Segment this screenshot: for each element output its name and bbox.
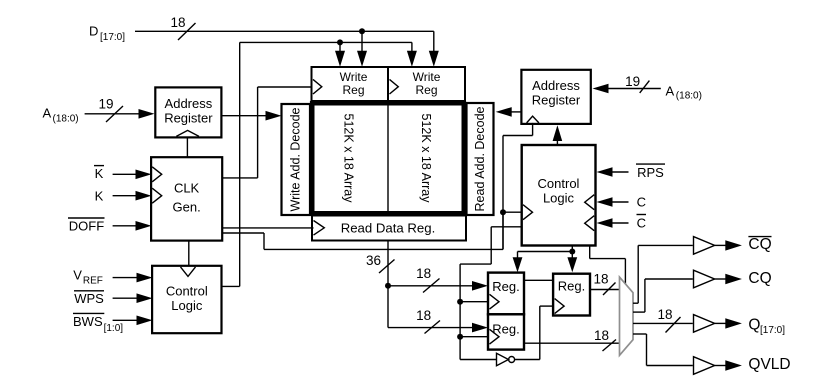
node K label [95,189,104,204]
svg-text:RPS: RPS [637,165,664,180]
svg-text:Q: Q [748,317,760,334]
wire K input [113,191,152,201]
svg-text:Reg.: Reg. [492,279,519,294]
node A(18:0) left label [43,106,79,125]
svg-text:18: 18 [593,272,608,287]
node D bus 18 label [170,15,185,30]
wire BWS overline [73,312,104,314]
decoder U4 Write Add. Decode [282,104,311,215]
svg-text:Reg.: Reg. [558,278,585,293]
wire mux to CQbar buffer [633,245,693,303]
buffer U17 CQbar [694,237,715,255]
svg-text:Address: Address [165,96,213,111]
buffer U20 QVLD [694,357,715,375]
wire A left arrowhead [139,109,155,119]
svg-text:Read Data Reg.: Read Data Reg. [341,220,436,235]
node 18 label lower mux input [594,328,609,343]
wire control logic to address register [553,125,563,145]
svg-text:19: 19 [98,97,113,112]
svg-text:Write Add. Decode: Write Add. Decode [289,107,303,211]
register U14 output Reg (right) [553,274,590,316]
node D junction dot [359,28,365,34]
wire 18 slash lower [425,321,441,334]
svg-text:CLK: CLK [174,181,200,196]
wire mux select from control logic [590,246,626,285]
wire address register clock net [503,123,533,249]
svg-text:A: A [666,84,675,99]
svg-text:Write: Write [413,70,441,84]
svg-text:18: 18 [657,307,672,322]
node 18 label right reg out [593,272,608,287]
wire output clock net from control logic [460,227,522,360]
wire Cbar overline [637,214,647,216]
svg-text:REF: REF [83,276,103,287]
memory U5 512Kx18 array block [312,103,464,213]
wire address register to write add decode [221,115,269,117]
wire 18 slash Q output [666,317,681,333]
wire clk gen to control logic clock [188,241,190,266]
svg-text:CQ: CQ [748,236,771,253]
node DOFF label [69,219,104,234]
svg-text:Register: Register [532,92,581,107]
wire Q output arrow [715,318,742,328]
node BWS[1:0] label [73,314,123,334]
wire DOFF overline [68,217,105,219]
svg-text:[17:0]: [17:0] [760,325,785,336]
register U9 Read Data Reg [312,216,466,241]
node CQ label [748,270,771,287]
wire RPS overline [636,163,665,165]
node select junction dot [569,249,575,255]
oscillator U2 CLK Gen [151,157,222,240]
svg-text:K: K [95,189,104,204]
svg-text:(18:0): (18:0) [53,114,79,125]
svg-text:512K x 18 Array: 512K x 18 Array [342,114,356,204]
wire 18 slash right reg out [603,283,616,296]
node C label [637,195,646,210]
node D[17:0] [89,24,125,44]
svg-text:Gen.: Gen. [173,200,201,215]
wire BWS arrowheads into write regs [335,51,417,67]
svg-text:CQ: CQ [748,270,771,287]
svg-text:512K x 18 Array: 512K x 18 Array [419,114,433,204]
wire RPS input [597,167,629,177]
register U1 Address Register (left) [155,87,221,137]
node VREF label [73,268,103,287]
wire D arrowheads into write regs [357,51,439,67]
wire Kbar input [113,170,152,180]
wire CQbar overline [748,236,771,238]
wire lower reg to mux [524,342,620,344]
wire address register clock to clk gen [186,137,188,157]
svg-text:BWS: BWS [73,314,103,329]
register U6 Write Reg (left) [312,67,389,101]
svg-text:Logic: Logic [171,298,203,313]
svg-text:Control: Control [166,284,208,299]
wire CQbar output arrow [715,240,742,250]
wire BWS input [113,316,153,326]
node Cbar label [637,215,646,230]
node Q[17:0] label [748,317,785,337]
register U10 Address Register (right) [521,70,590,124]
register U12 output Reg (upper left) [488,273,524,315]
wire WPS input [113,293,153,303]
wire A right input [593,84,661,94]
svg-text:[1:0]: [1:0] [104,323,124,334]
wire mux to QVLD buffer [633,334,693,366]
node A right 19 label [625,74,640,89]
node CQbar label [748,236,771,253]
wire clk gen to read data reg clock [222,227,313,229]
node QVLD label [748,356,790,373]
wire arrowhead into lower output reg [472,323,488,333]
wire clk gen to write reg clock [222,87,311,178]
svg-text:[17:0]: [17:0] [100,32,125,43]
svg-text:DOFF: DOFF [69,219,104,234]
wire D bus slash [178,23,196,40]
inverter U15 [497,353,515,365]
svg-text:Control: Control [538,176,580,191]
node WPS label [74,291,104,306]
buffer U18 CQ [694,270,715,288]
node 18 label upper reg input [416,266,431,281]
wire address register to read add decode [496,107,522,117]
svg-text:Reg: Reg [415,83,437,97]
node A(18:0) right label [666,84,702,102]
wire VREF input [113,273,153,283]
wire output clock to upper reg [460,301,488,303]
svg-text:Address: Address [532,78,580,93]
wire 36-bit read data bus [388,241,475,328]
svg-text:(18:0): (18:0) [676,91,702,102]
wire arrowhead into write add decode [266,111,282,121]
wire 36 slash [379,260,395,274]
wire WPS overline [74,290,104,292]
wire QVLD output arrow [715,360,742,370]
wire arrowhead into upper output reg [472,281,488,291]
wire CQ output arrow [715,274,742,284]
svg-text:Logic: Logic [543,190,575,205]
wire A right slash [640,81,650,93]
svg-text:QVLD: QVLD [748,356,790,373]
svg-text:Reg: Reg [342,83,364,97]
register U7 Write Reg (right) [388,67,465,101]
node 18 label Q output [657,307,672,322]
node A left 19 label [98,97,113,112]
wire right reg to mux [590,289,620,291]
node clock junction dot [500,209,506,215]
svg-text:18: 18 [416,308,431,323]
wire clk gen K clock distribution to right control logic [222,212,503,249]
svg-text:D: D [89,24,98,39]
decoder U8 Read Add. Decode [467,103,494,215]
svg-text:18: 18 [170,15,185,30]
mux U16 [620,277,634,355]
wire A input to address register [85,113,142,115]
wire D bus to write regs [135,31,434,53]
svg-text:Register: Register [164,110,213,125]
svg-text:C: C [637,215,646,230]
node 18 label lower reg input [416,308,431,323]
logic U3 Control Logic (left) [152,266,221,333]
wire output clock to lower reg [460,336,488,338]
svg-text:Read Add. Decode: Read Add. Decode [473,106,487,211]
node Kbar label [95,166,104,181]
node RPS label [637,165,664,180]
wire control logic to write regs [222,42,412,286]
node BWS junction dot [337,39,343,45]
wire upper reg to right reg [524,279,553,281]
wire select arrowheads into regs [513,257,578,272]
wire Kbar overline [94,165,104,167]
wire inverter output to right reg clock [515,306,554,359]
svg-text:WPS: WPS [74,291,104,306]
svg-text:V: V [73,268,82,283]
wire 18 slash upper [423,279,440,293]
svg-text:19: 19 [625,74,640,89]
register U13 output Reg (lower left) [488,314,524,349]
node 36 label [366,253,381,268]
logic U11 Control Logic (right) [522,145,596,246]
svg-text:36: 36 [366,253,381,268]
wire mux to Q buffer [633,322,693,324]
wire A left slash [106,106,123,122]
svg-text:Write: Write [340,70,368,84]
svg-text:18: 18 [594,328,609,343]
svg-text:18: 18 [416,266,431,281]
svg-text:K: K [95,166,104,181]
node clock dot upper [457,299,463,305]
node 36-bus junction dot [385,283,391,289]
wire DOFF input [113,221,152,231]
buffer U19 Q [694,315,715,333]
wire 18 slash lower mux input [603,340,617,352]
node clock dot lower [457,334,463,340]
wire mux to CQ buffer [633,279,693,312]
svg-text:A: A [43,106,52,121]
wire reg select stubs from control logic bottom [518,246,573,259]
wire C input [597,197,629,207]
svg-text:C: C [637,195,646,210]
wire Cbar input [597,218,629,228]
